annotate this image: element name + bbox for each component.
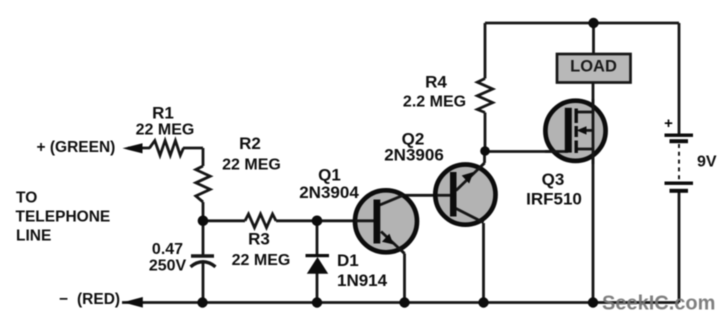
svg-text:TO: TO [16, 190, 37, 207]
svg-text:R2: R2 [239, 134, 261, 153]
svg-text:R3: R3 [248, 230, 270, 249]
svg-text:250V: 250V [149, 258, 187, 275]
svg-text:22 MEG: 22 MEG [136, 122, 195, 139]
svg-text:0.47: 0.47 [152, 241, 183, 258]
svg-text:Q3: Q3 [542, 170, 565, 189]
svg-text:LINE: LINE [16, 228, 51, 245]
svg-text:22 MEG: 22 MEG [222, 156, 281, 173]
svg-text:D1: D1 [337, 251, 359, 270]
svg-text:+: + [664, 115, 673, 132]
svg-text:2N3904: 2N3904 [299, 183, 359, 202]
svg-text:2N3906: 2N3906 [384, 146, 444, 165]
svg-text:−: − [59, 291, 68, 308]
svg-text:R4: R4 [425, 72, 447, 91]
svg-text:+ (GREEN): + (GREEN) [37, 139, 116, 156]
svg-text:1N914: 1N914 [337, 271, 388, 290]
svg-text:LOAD: LOAD [570, 58, 617, 76]
svg-text:2.2 MEG: 2.2 MEG [403, 94, 466, 111]
svg-text:SeekIC.com: SeekIC.com [602, 293, 715, 315]
svg-text:(RED): (RED) [77, 291, 120, 308]
svg-text:9V: 9V [697, 154, 717, 171]
svg-text:R1: R1 [152, 104, 174, 123]
svg-text:IRF510: IRF510 [526, 189, 582, 208]
svg-text:TELEPHONE: TELEPHONE [16, 208, 111, 225]
svg-text:22 MEG: 22 MEG [232, 252, 291, 269]
